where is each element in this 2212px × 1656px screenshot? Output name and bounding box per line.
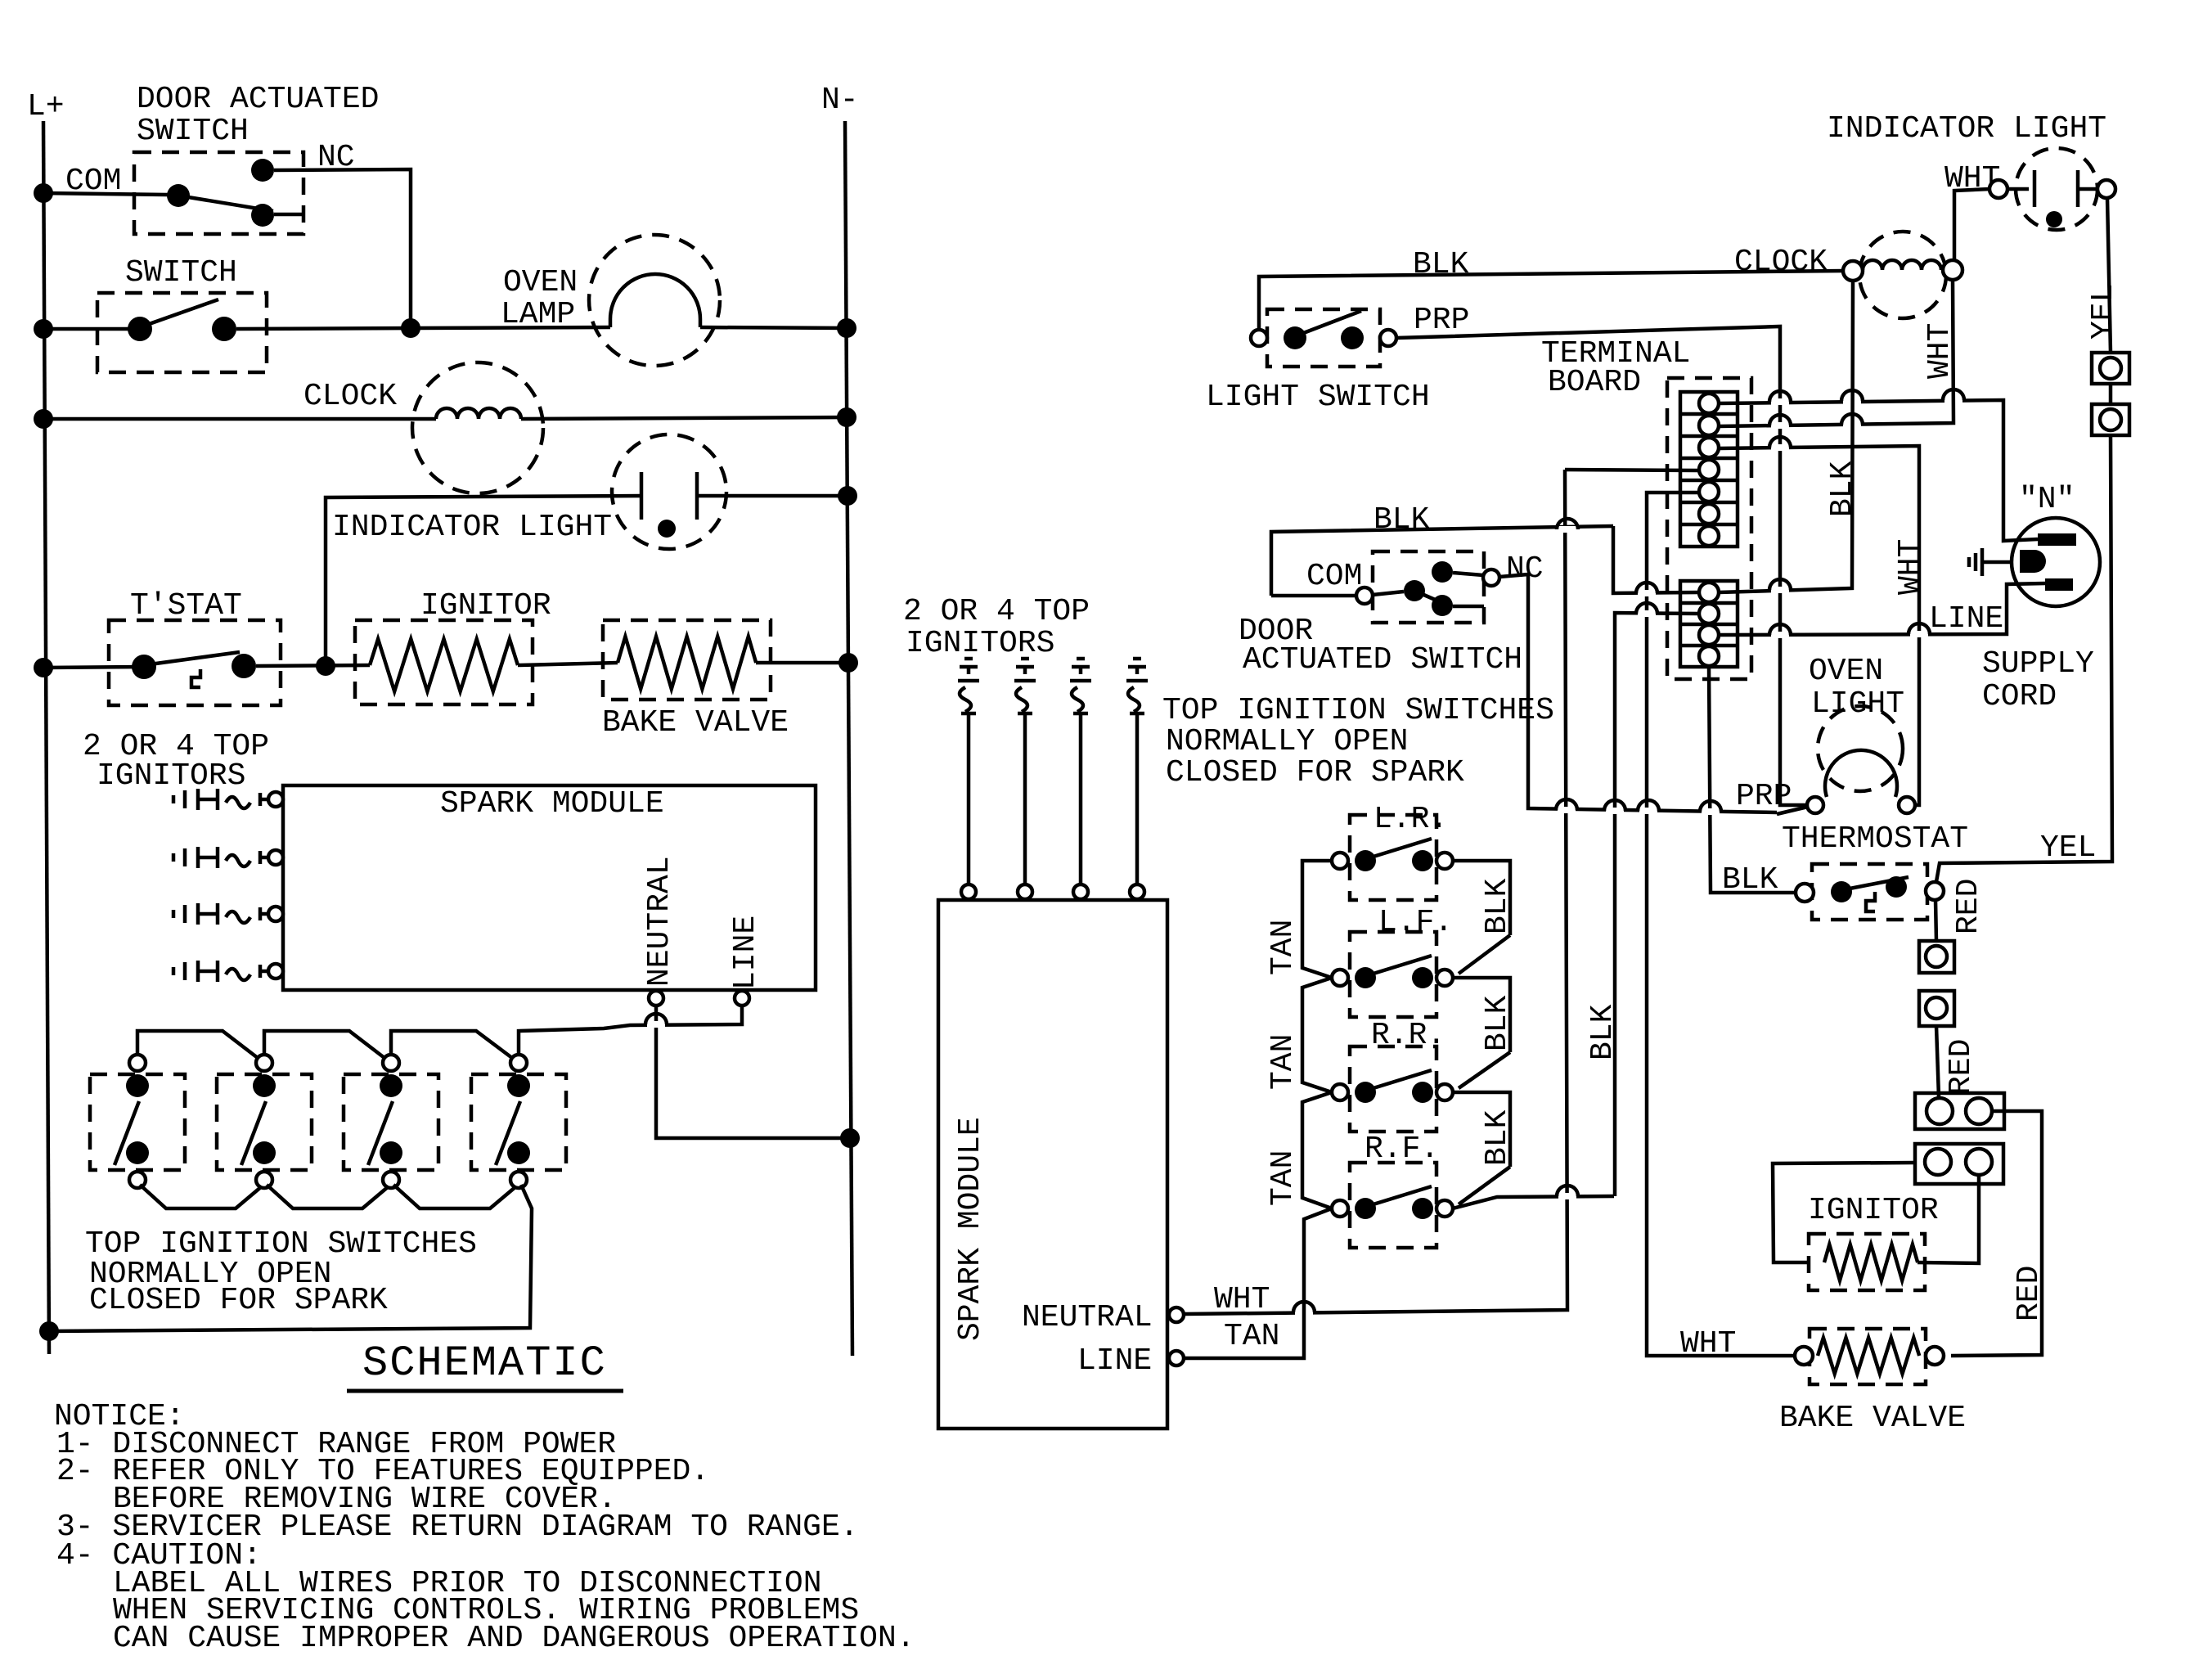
- wire SW2 top to SW3 top: [264, 1031, 384, 1058]
- indicator DS2 left plate: [2007, 187, 2029, 191]
- switch SW1 blade: [115, 1101, 139, 1165]
- wire TB-11 to thermostat BLK: [1709, 667, 1796, 893]
- terminal board TB outline (dashed): [1667, 378, 1751, 679]
- wire ground to plug: [1982, 560, 2012, 565]
- terminal board TB upper block: [1680, 392, 1738, 547]
- top ignition switch SW1 (dashed box): [90, 1074, 185, 1170]
- wire RED thermostat to connector: [1935, 900, 1936, 941]
- svg-text:IGNITOR: IGNITOR: [1808, 1193, 1939, 1228]
- connector J2 (square terminal): [2092, 404, 2129, 435]
- switch R.F. left contact: [1355, 1198, 1376, 1219]
- wire clock row right: [521, 417, 847, 419]
- thermostat S6 right terminal: [1926, 882, 1944, 900]
- wire PRP light switch to oven light: [1396, 326, 1807, 805]
- clock M1 coil: [436, 408, 521, 419]
- svg-text:CLOCK: CLOCK: [1734, 245, 1828, 280]
- svg-text:CORD: CORD: [1982, 679, 2057, 714]
- svg-text:BAKE VALVE: BAKE VALVE: [1779, 1401, 1966, 1436]
- pin module A2 input 1: [961, 884, 976, 899]
- wire TAN L.R. to L.F.: [1302, 861, 1332, 978]
- terminal TB-3 screw: [1699, 438, 1719, 457]
- wire COM row: [43, 193, 168, 195]
- top ignitor electrode E3 (left): [172, 910, 176, 918]
- connector block CB1: [1915, 1093, 2004, 1129]
- svg-text:"N": "N": [2019, 482, 2075, 517]
- wire hop TB-3 over PRP: [1771, 444, 1789, 451]
- door switch S5 NC contact: [1432, 561, 1453, 583]
- switch SW3 top contact: [380, 1074, 402, 1097]
- wire hop LINE over WHT drop: [1910, 631, 1928, 637]
- switch SW2 blade: [241, 1101, 266, 1165]
- svg-text:BLK: BLK: [1585, 1004, 1621, 1060]
- node junction bake valve / N-: [838, 653, 858, 673]
- wire BLK stub to door COM terminal: [1271, 594, 1356, 598]
- svg-text:CAN CAUSE IMPROPER AND DANGERO: CAN CAUSE IMPROPER AND DANGEROUS OPERATI…: [113, 1621, 915, 1656]
- wire TB-10 LINE to supply cord: [1719, 583, 2045, 635]
- svg-text:BLK: BLK: [1480, 1109, 1515, 1166]
- indicator DS2 cathode dot: [2046, 211, 2062, 227]
- svg-text:LINE: LINE: [1077, 1343, 1152, 1379]
- wire NC diagonal to oven light: [1777, 807, 1808, 814]
- wire hop NC over TB-11 drop: [1702, 808, 1720, 815]
- switch R.F. blade: [1365, 1186, 1432, 1207]
- pin LINE terminal (left module): [735, 991, 749, 1006]
- thermostat S3 T'STAT (dashed box): [109, 620, 281, 705]
- wire ignitor to bake valve: [518, 663, 618, 665]
- supply cord P1 neutral prong: [2038, 533, 2076, 546]
- wire BLK light switch to clock: [1259, 271, 1843, 330]
- svg-text:THERMOSTAT: THERMOSTAT: [1782, 821, 1968, 857]
- terminal TB-5 screw: [1699, 482, 1719, 502]
- terminal TB separator u1: [1680, 412, 1738, 416]
- connector J1 contact: [2100, 358, 2121, 379]
- wire hop TB-2 over BLK drop: [1843, 421, 1861, 428]
- wire hop WHT wire over TAN drop: [1295, 1309, 1313, 1316]
- connector CB2 right contact: [1966, 1149, 1992, 1175]
- switch R.R. right contact: [1412, 1082, 1433, 1103]
- thermostat S6 left terminal: [1796, 884, 1814, 902]
- clock M2 right terminal: [1943, 260, 1962, 280]
- svg-text:NEUTRAL: NEUTRAL: [642, 856, 677, 987]
- svg-text:NORMALLY OPEN: NORMALLY OPEN: [1166, 724, 1408, 759]
- light switch S4 left contact: [1284, 326, 1306, 349]
- top ignitor electrode F2 (right): [1021, 657, 1029, 661]
- svg-text:PRP: PRP: [1736, 779, 1792, 814]
- svg-text:TOP IGNITION SWITCHES: TOP IGNITION SWITCHES: [1162, 693, 1554, 728]
- terminal TB separator u4: [1680, 479, 1738, 483]
- indicator DS2 left terminal: [1989, 180, 2007, 198]
- connector CB1 right contact: [1966, 1098, 1992, 1124]
- burner switch L.F. (dashed box): [1350, 932, 1436, 1017]
- wire TB-8 to clock left BLK drop: [1719, 281, 1853, 592]
- svg-text:INDICATOR LIGHT: INDICATOR LIGHT: [1827, 111, 2106, 146]
- svg-text:COM: COM: [1306, 559, 1362, 594]
- svg-text:R.R.: R.R.: [1371, 1018, 1445, 1053]
- wire S5 NC stub: [1453, 573, 1483, 575]
- clock M2 left terminal: [1843, 261, 1863, 281]
- svg-text:WHT: WHT: [1214, 1282, 1270, 1317]
- wire SW1 top to SW2 top: [137, 1031, 258, 1058]
- wire hop TB-1 over WHT drop: [1944, 397, 1962, 403]
- terminal TB separator u2: [1680, 434, 1738, 439]
- pin terminal module input 4 (left): [268, 964, 283, 979]
- svg-text:CLOCK: CLOCK: [303, 379, 397, 414]
- terminal TB separator u3: [1680, 457, 1738, 461]
- node junction SW bottoms / L+ bus: [39, 1321, 59, 1341]
- burner switch L.R. (dashed box): [1350, 815, 1436, 900]
- switch L.F. left contact: [1355, 967, 1376, 988]
- svg-text:LIGHT SWITCH: LIGHT SWITCH: [1206, 380, 1430, 415]
- pin module A2 input 2: [1018, 884, 1032, 899]
- svg-text:NEUTRAL: NEUTRAL: [1022, 1300, 1153, 1335]
- svg-text:RED: RED: [2012, 1266, 2047, 1321]
- wire CB1 to bake valve RED: [1951, 1111, 2042, 1356]
- wire TB-4 to WHT bus: [1565, 470, 1699, 470]
- switch S2 blade: [140, 299, 218, 327]
- thermostat S3 actuator hook: [191, 669, 200, 687]
- clock M2 coil: [1863, 260, 1941, 270]
- wire BLK R.F. to bus: [1453, 1196, 1614, 1208]
- switch L.R. left contact: [1355, 850, 1376, 871]
- switch S1 NO contact: [251, 204, 274, 227]
- svg-text:IGNITOR: IGNITOR: [420, 588, 551, 623]
- svg-text:OVEN: OVEN: [503, 265, 578, 300]
- terminal TB-1 screw: [1699, 394, 1719, 413]
- connector J4 (square terminal): [1919, 991, 1954, 1026]
- light switch S4 blade: [1295, 311, 1361, 336]
- svg-text:TAN: TAN: [1266, 920, 1301, 975]
- svg-text:BOARD: BOARD: [1548, 365, 1641, 400]
- connector J4 contact: [1926, 997, 1947, 1019]
- wire TB-9 to ignition switch BLK bus: [1615, 613, 1699, 1196]
- burner switch R.F. (dashed box): [1350, 1163, 1436, 1248]
- switch L.F. right contact: [1412, 967, 1433, 988]
- thermostat S3 blade: [144, 652, 240, 665]
- switch SW2 bottom contact: [253, 1141, 276, 1164]
- svg-text:IGNITORS: IGNITORS: [906, 626, 1054, 661]
- pin LINE terminal (right module): [1169, 1351, 1184, 1366]
- wire hop TB-9 over bake WHT drop: [1638, 610, 1656, 617]
- ignitor R2 resistor element: [1824, 1244, 1918, 1280]
- switch SW3 top terminal: [383, 1055, 399, 1071]
- clock M1 (dashed circle): [412, 362, 543, 493]
- svg-text:R.F.: R.F.: [1365, 1132, 1439, 1167]
- node junction L+ / clock row: [34, 409, 53, 429]
- bake valve L2 coil element: [1818, 1338, 1919, 1374]
- burner switch R.R. (dashed box): [1350, 1046, 1436, 1132]
- oven light DS3 right terminal: [1899, 797, 1915, 813]
- wire TB-3 to oven light right: [1719, 446, 1919, 805]
- switch SW4 top contact: [507, 1074, 530, 1097]
- wire TB-1 to supply cord N: [1719, 400, 2038, 541]
- svg-text:OVEN: OVEN: [1809, 654, 1883, 689]
- wire NEUTRAL to N- bus: [656, 1006, 850, 1138]
- wire t'stat to ignitor: [256, 665, 370, 666]
- top ignition switch SW4 (dashed box): [471, 1074, 566, 1170]
- top ignition switch SW3 (dashed box): [344, 1074, 438, 1170]
- title underline: [347, 1389, 623, 1393]
- indicator DS1 left plate: [640, 472, 644, 520]
- svg-text:SUPPLY: SUPPLY: [1982, 646, 2094, 682]
- wire TAN L.F. to R.R.: [1302, 978, 1332, 1092]
- door actuated switch S5 (dashed box): [1373, 551, 1484, 623]
- door switch S5 blade: [1414, 591, 1452, 607]
- thermostat S6 left contact: [1831, 881, 1852, 902]
- switch SW1 top contact: [126, 1074, 149, 1097]
- svg-text:BLK: BLK: [1374, 502, 1430, 538]
- terminal TB-11 screw: [1699, 646, 1719, 666]
- svg-text:SPARK MODULE: SPARK MODULE: [440, 786, 664, 821]
- svg-text:YEL: YEL: [2086, 284, 2121, 340]
- switch SW1 bottom contact: [126, 1141, 149, 1164]
- svg-text:N-: N-: [821, 83, 859, 118]
- wire bake valve to N- bus: [756, 661, 848, 665]
- bake valve L2 left terminal: [1795, 1347, 1813, 1365]
- wire BLK R.R. to R.F.: [1453, 1092, 1510, 1167]
- terminal TB-8 screw: [1699, 583, 1719, 602]
- svg-text:BLK: BLK: [1480, 995, 1515, 1051]
- thermostat S6 (dashed box): [1812, 864, 1927, 920]
- wire hop LINE over PRP: [1771, 632, 1789, 638]
- wire BLK L.R. to L.F.: [1453, 861, 1510, 935]
- wire SW3 top to SW4 top: [391, 1031, 512, 1058]
- svg-text:SWITCH: SWITCH: [137, 114, 249, 149]
- wire WHT bus: [1185, 470, 1567, 1314]
- svg-text:WHT: WHT: [1893, 539, 1928, 595]
- svg-text:LINE: LINE: [1929, 601, 2003, 637]
- connector J2 contact: [2100, 409, 2121, 430]
- connector CB1 left contact: [1927, 1098, 1953, 1124]
- switch SW1 top terminal: [129, 1055, 146, 1071]
- wire TAN module LINE to R.F. switch: [1185, 1208, 1332, 1358]
- indicator light DS1 (dashed circle): [612, 434, 726, 549]
- ignitor R1 (dashed box): [355, 620, 533, 704]
- node junction NC/switch row: [401, 318, 420, 338]
- oven light DS3 filament: [1825, 750, 1897, 797]
- light switch S4 left terminal: [1251, 330, 1267, 346]
- oven light DS3 left terminal: [1807, 797, 1823, 813]
- switch SW2 top contact: [253, 1074, 276, 1097]
- switch SW2 bottom terminal: [256, 1172, 272, 1188]
- oven lamp LP1 (dashed circle): [589, 235, 720, 366]
- terminal TB separator l2: [1680, 623, 1738, 627]
- wire SW1 bottom to SW2 bottom: [140, 1185, 262, 1208]
- connector J1 (square terminal): [2092, 353, 2129, 384]
- pin terminal module input 3 (left): [268, 907, 283, 921]
- wire t'stat junction to indicator row: [326, 496, 641, 666]
- pin terminal module input 2 (left): [268, 850, 283, 865]
- connector block CB2: [1915, 1144, 2003, 1184]
- switch L.F. right terminal: [1436, 970, 1453, 986]
- top ignitor electrode F4 (right): [1133, 657, 1141, 661]
- switch L.R. blade: [1365, 839, 1432, 859]
- switch L.R. right terminal: [1436, 853, 1453, 869]
- top ignitor electrode E4 (left): [172, 967, 176, 975]
- wire hop NC over BLK bus: [1606, 808, 1624, 814]
- svg-text:WHT: WHT: [1922, 323, 1958, 379]
- svg-text:LAMP: LAMP: [501, 297, 575, 332]
- terminal TB separator u6: [1680, 523, 1738, 527]
- switch SW1 bottom terminal: [129, 1172, 146, 1188]
- wire hop NC over WHT bus: [1558, 807, 1576, 813]
- bake valve L1 (dashed box): [603, 620, 771, 700]
- svg-text:BLK: BLK: [1480, 878, 1515, 934]
- wire ignitor to CB2 right: [1918, 1176, 1979, 1263]
- switch S2 left contact: [128, 317, 152, 341]
- wire TB-8 to BLK riser: [1613, 526, 1699, 593]
- svg-text:TAN: TAN: [1266, 1150, 1301, 1206]
- switch L.F. blade: [1365, 956, 1432, 976]
- thermostat S3 left contact: [132, 655, 156, 679]
- switch R.F. left terminal: [1332, 1200, 1348, 1217]
- wire hop TB-1 over PRP: [1771, 398, 1789, 405]
- wire switch row to lamp: [236, 327, 610, 329]
- wire lamp to N- bus: [700, 327, 847, 328]
- terminal board TB lower block: [1680, 581, 1738, 667]
- wire BLK L.F. to R.R.: [1453, 978, 1510, 1052]
- wire SW4 bottom to L+ bus: [49, 1185, 532, 1331]
- switch SW4 bottom contact: [507, 1141, 530, 1164]
- switch L.R. left terminal: [1332, 853, 1348, 869]
- switch L.F. left terminal: [1332, 970, 1348, 986]
- ignitor R1 resistor element: [370, 639, 518, 691]
- svg-text:CLOSED FOR SPARK: CLOSED FOR SPARK: [1166, 755, 1464, 790]
- connector J3 (square terminal): [1919, 941, 1954, 973]
- door switch S5 COM terminal: [1356, 587, 1373, 604]
- wire S1 NC to oven-lamp row: [274, 169, 411, 327]
- switch S1 door actuated (dashed box): [134, 152, 303, 234]
- switch S1 NC contact: [251, 159, 274, 182]
- top ignitor electrode E2 (left): [172, 853, 176, 862]
- svg-text:WHT: WHT: [1680, 1326, 1736, 1361]
- svg-text:BAKE VALVE: BAKE VALVE: [602, 705, 789, 740]
- switch R.R. left terminal: [1332, 1084, 1348, 1100]
- switch SW3 bottom contact: [380, 1141, 402, 1164]
- bake valve L1 coil element: [618, 637, 756, 689]
- switch R.F. right terminal: [1436, 1200, 1453, 1217]
- wire hop TB-2 over PRP: [1771, 422, 1789, 429]
- wire J1 to J2: [2109, 384, 2113, 404]
- switch SW3 bottom terminal: [383, 1172, 399, 1188]
- wire RED connector to block: [1936, 1026, 1939, 1097]
- bake valve L2 right terminal: [1926, 1347, 1944, 1365]
- indicator DS2 right plate: [2076, 170, 2080, 207]
- switch L.R. right contact: [1412, 850, 1433, 871]
- svg-text:RED: RED: [1944, 1039, 1979, 1095]
- top ignitor electrode E1 (left): [172, 795, 176, 803]
- node junction NEUTRAL / N-: [840, 1128, 860, 1148]
- terminal TB-4 screw: [1699, 460, 1719, 479]
- switch S1 common contact: [167, 184, 190, 207]
- terminal TB separator l3: [1680, 644, 1738, 648]
- terminal TB-9 screw: [1699, 604, 1719, 623]
- wire hop NC over bake WHT drop: [1639, 808, 1657, 814]
- thermostat S3 right contact: [232, 654, 256, 678]
- switch SW4 top terminal: [510, 1055, 527, 1071]
- node junction lamp / N-: [837, 318, 856, 338]
- svg-text:SWITCH: SWITCH: [125, 255, 237, 290]
- switch R.F. right contact: [1412, 1198, 1433, 1219]
- svg-text:RED: RED: [1951, 879, 1986, 934]
- wire hop TB-1 over BLK drop: [1843, 398, 1861, 404]
- wire hop R.F. BLK over WHT bus: [1558, 1193, 1576, 1199]
- spark module A1 box (left): [283, 785, 816, 990]
- wire SW4 top to LINE terminal: [519, 1006, 742, 1055]
- svg-text:DOOR ACTUATED: DOOR ACTUATED: [137, 82, 379, 117]
- switch R.R. left contact: [1355, 1082, 1376, 1103]
- switch S2 oven lamp switch (dashed box): [97, 293, 267, 372]
- switch S1 blade: [178, 196, 273, 211]
- svg-text:NC: NC: [1506, 551, 1544, 587]
- pin NEUTRAL terminal (left module): [649, 991, 663, 1006]
- wire hop over NEUTRAL drop: [647, 1021, 665, 1028]
- supply cord P1 (circle): [2012, 518, 2100, 606]
- svg-text:TAN: TAN: [1224, 1319, 1279, 1354]
- svg-text:INDICATOR LIGHT: INDICATOR LIGHT: [332, 510, 612, 545]
- terminal TB-2 screw: [1699, 416, 1719, 435]
- svg-text:LINE: LINE: [728, 916, 763, 990]
- wire hop TB-8 over PRP: [1771, 587, 1789, 593]
- wire NC to oven light PRP: [1499, 574, 1777, 812]
- node junction clock / N-: [837, 407, 856, 427]
- svg-text:T'STAT: T'STAT: [130, 588, 242, 623]
- wire CB2 left to ignitor: [1773, 1163, 1915, 1262]
- svg-text:ACTUATED SWITCH: ACTUATED SWITCH: [1243, 642, 1522, 677]
- indicator light DS2 (dashed circle): [2016, 148, 2097, 230]
- svg-text:SCHEMATIC: SCHEMATIC: [362, 1339, 607, 1388]
- wire YEL indicator to connector: [2107, 198, 2111, 353]
- switch SW3 blade: [368, 1101, 393, 1165]
- pin module A2 input 4: [1130, 884, 1144, 899]
- top ignitor electrode F1 (right): [964, 657, 973, 661]
- svg-text:L.R.: L.R.: [1374, 802, 1448, 837]
- wire SW3 bottom to SW4 bottom: [393, 1185, 516, 1208]
- wire S1 NO stub: [274, 213, 303, 217]
- thermostat S6 blade: [1841, 877, 1909, 890]
- switch SW2 top terminal: [256, 1055, 272, 1071]
- wire switch row left: [43, 327, 140, 331]
- switch SW4 bottom terminal: [510, 1172, 527, 1188]
- light switch S4 right contact: [1341, 326, 1364, 349]
- wire TAN R.R. to R.F.: [1302, 1092, 1332, 1208]
- svg-text:PRP: PRP: [1414, 303, 1469, 338]
- thermostat S6 right contact: [1886, 876, 1907, 898]
- wire hop TB-8 over bake WHT drop: [1638, 590, 1656, 596]
- oven lamp LP1 filament: [610, 274, 700, 327]
- switch R.R. blade: [1365, 1070, 1432, 1091]
- svg-text:TAN: TAN: [1266, 1034, 1301, 1090]
- thermostat S6 actuator hook: [1866, 892, 1875, 911]
- supply cord P1 line prong: [2045, 578, 2073, 591]
- light switch S4 right terminal: [1380, 330, 1396, 346]
- connector J3 contact: [1926, 946, 1947, 967]
- node junction L+ / t'stat row: [34, 658, 53, 677]
- spark module A2 box (right): [938, 900, 1167, 1429]
- door switch S5 NC terminal: [1483, 569, 1499, 586]
- light switch S4 (dashed box): [1267, 309, 1380, 367]
- top ignition switch SW2 (dashed box): [217, 1074, 312, 1170]
- terminal TB separator u5: [1680, 501, 1738, 505]
- top ignitor electrode F3 (right): [1077, 657, 1085, 661]
- oven light DS3 (dashed circle): [1818, 706, 1903, 791]
- svg-text:L+: L+: [27, 89, 65, 124]
- wire S5 COM stub: [1373, 592, 1404, 595]
- bake valve L2 (dashed box): [1810, 1329, 1926, 1384]
- wire SW2 bottom to SW3 bottom: [267, 1185, 389, 1208]
- terminal TB-7 screw: [1699, 526, 1719, 546]
- svg-text:2 OR 4 TOP: 2 OR 4 TOP: [903, 594, 1090, 629]
- clock M2 (dashed circle): [1859, 232, 1946, 318]
